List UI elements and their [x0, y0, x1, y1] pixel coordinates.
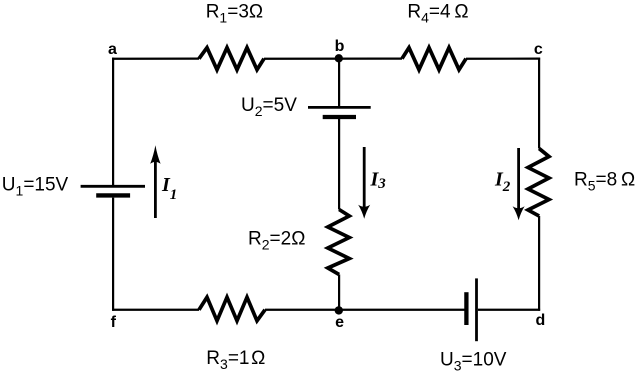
svg-text:c: c [534, 41, 543, 58]
wire b down to U2 (middle upper vertical) [338, 59, 340, 108]
wire f up to U1 (left lower vertical) [112, 198, 114, 311]
wire U1 to a (left upper vertical) [112, 58, 114, 187]
svg-text:e: e [335, 314, 344, 331]
wire R5 to d (right lower vertical) [538, 216, 540, 311]
svg-text:d: d [536, 312, 546, 329]
resistor R4 [402, 48, 466, 70]
svg-text:f: f [111, 314, 117, 331]
svg-text:U3=10V: U3=10V [440, 350, 507, 374]
resistor R3 [199, 297, 265, 321]
svg-text:R2=2Ω: R2=2Ω [248, 229, 305, 253]
svg-text:R1=3Ω: R1=3Ω [206, 2, 263, 26]
wire a to R1 (top left horizontal) [112, 57, 199, 59]
svg-text:R3=1 Ω: R3=1 Ω [206, 348, 265, 372]
svg-text:R4=4 Ω: R4=4 Ω [407, 2, 468, 26]
wire U2 to R2 (middle vertical) [338, 117, 340, 210]
wire U3 to e (bottom middle horizontal) [339, 309, 465, 311]
current arrow I2 (down) [513, 148, 525, 220]
battery U1 [81, 186, 145, 195]
resistor R2 [328, 210, 350, 275]
battery U2 [308, 107, 371, 117]
wire R1 to b to R4 (top middle horizontal) [264, 57, 402, 59]
svg-text:b: b [335, 38, 345, 55]
svg-text:R5=8 Ω: R5=8 Ω [574, 170, 635, 194]
wire R3 to f (bottom left horizontal) [112, 309, 199, 311]
wire R4 to c (top right horizontal) [466, 57, 540, 59]
node e [335, 306, 343, 314]
wire d to U3 (bottom right horizontal) [478, 309, 540, 311]
wire R2 to e (middle lower vertical) [338, 275, 340, 311]
wire e to R3 [265, 309, 339, 311]
svg-text:U1=15V: U1=15V [2, 174, 69, 198]
current arrow I1 (up) [150, 145, 160, 218]
svg-text:U2=5V: U2=5V [241, 95, 297, 119]
resistor R1 [199, 48, 264, 70]
svg-text:a: a [108, 41, 117, 58]
battery U3 [466, 278, 476, 341]
wire c down to R5 (right upper vertical) [538, 58, 540, 149]
resistor R5 [528, 149, 549, 217]
node b [335, 54, 343, 62]
current arrow I3 (down) [358, 147, 370, 219]
